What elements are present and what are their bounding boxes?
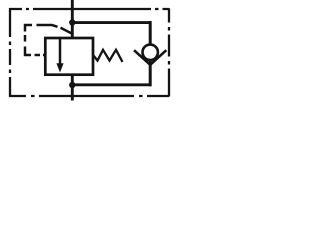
wire: valve outlet line (vertical, through bottom edge) (71, 74, 74, 101)
check valve CV1: poppet ball (143, 45, 158, 60)
wire: outlet bus (horizontal, y=82) (72, 83, 152, 86)
wire: branch line to check valve (horizontal, y=22) (72, 21, 151, 24)
enclosure boundary right edge (dash-dot) (168, 8, 170, 96)
node: junction J2 (69, 82, 75, 88)
enclosure boundary top edge (dash-dot) (9, 8, 169, 10)
relief valve V1: flow-path arrowhead (56, 63, 63, 72)
pilot line (dashed): top long dash with bend (37, 25, 58, 27)
check valve CV1: seat (V) (134, 50, 166, 65)
wire: check valve inlet drop (149, 21, 152, 45)
pilot line (dashed): upper-left corner dash (25, 25, 32, 32)
enclosure boundary bottom edge (dash-dot) (9, 95, 169, 97)
enclosure boundary left edge (dash-dot) (9, 8, 11, 96)
relief valve V1: flow-path arrow shaft (59, 39, 62, 66)
relief valve V1: spring (93, 50, 123, 62)
pilot line (dashed): diagonal dash into inlet line (61, 28, 73, 34)
node: junction J1 (69, 19, 75, 25)
wire: check valve outlet drop (149, 61, 152, 87)
relief valve V1: body envelope (45, 38, 93, 75)
pilot line (dashed): vertical middle dash (24, 35, 27, 42)
pilot line (dashed): lower-left corner dash (25, 47, 31, 56)
wire: inlet pressure line (vertical, from top edge into valve) (71, 0, 74, 39)
pilot line (dashed): lower horizontal dash (35, 54, 41, 57)
pilot line (dashed): stub from valve left port (43, 54, 46, 57)
